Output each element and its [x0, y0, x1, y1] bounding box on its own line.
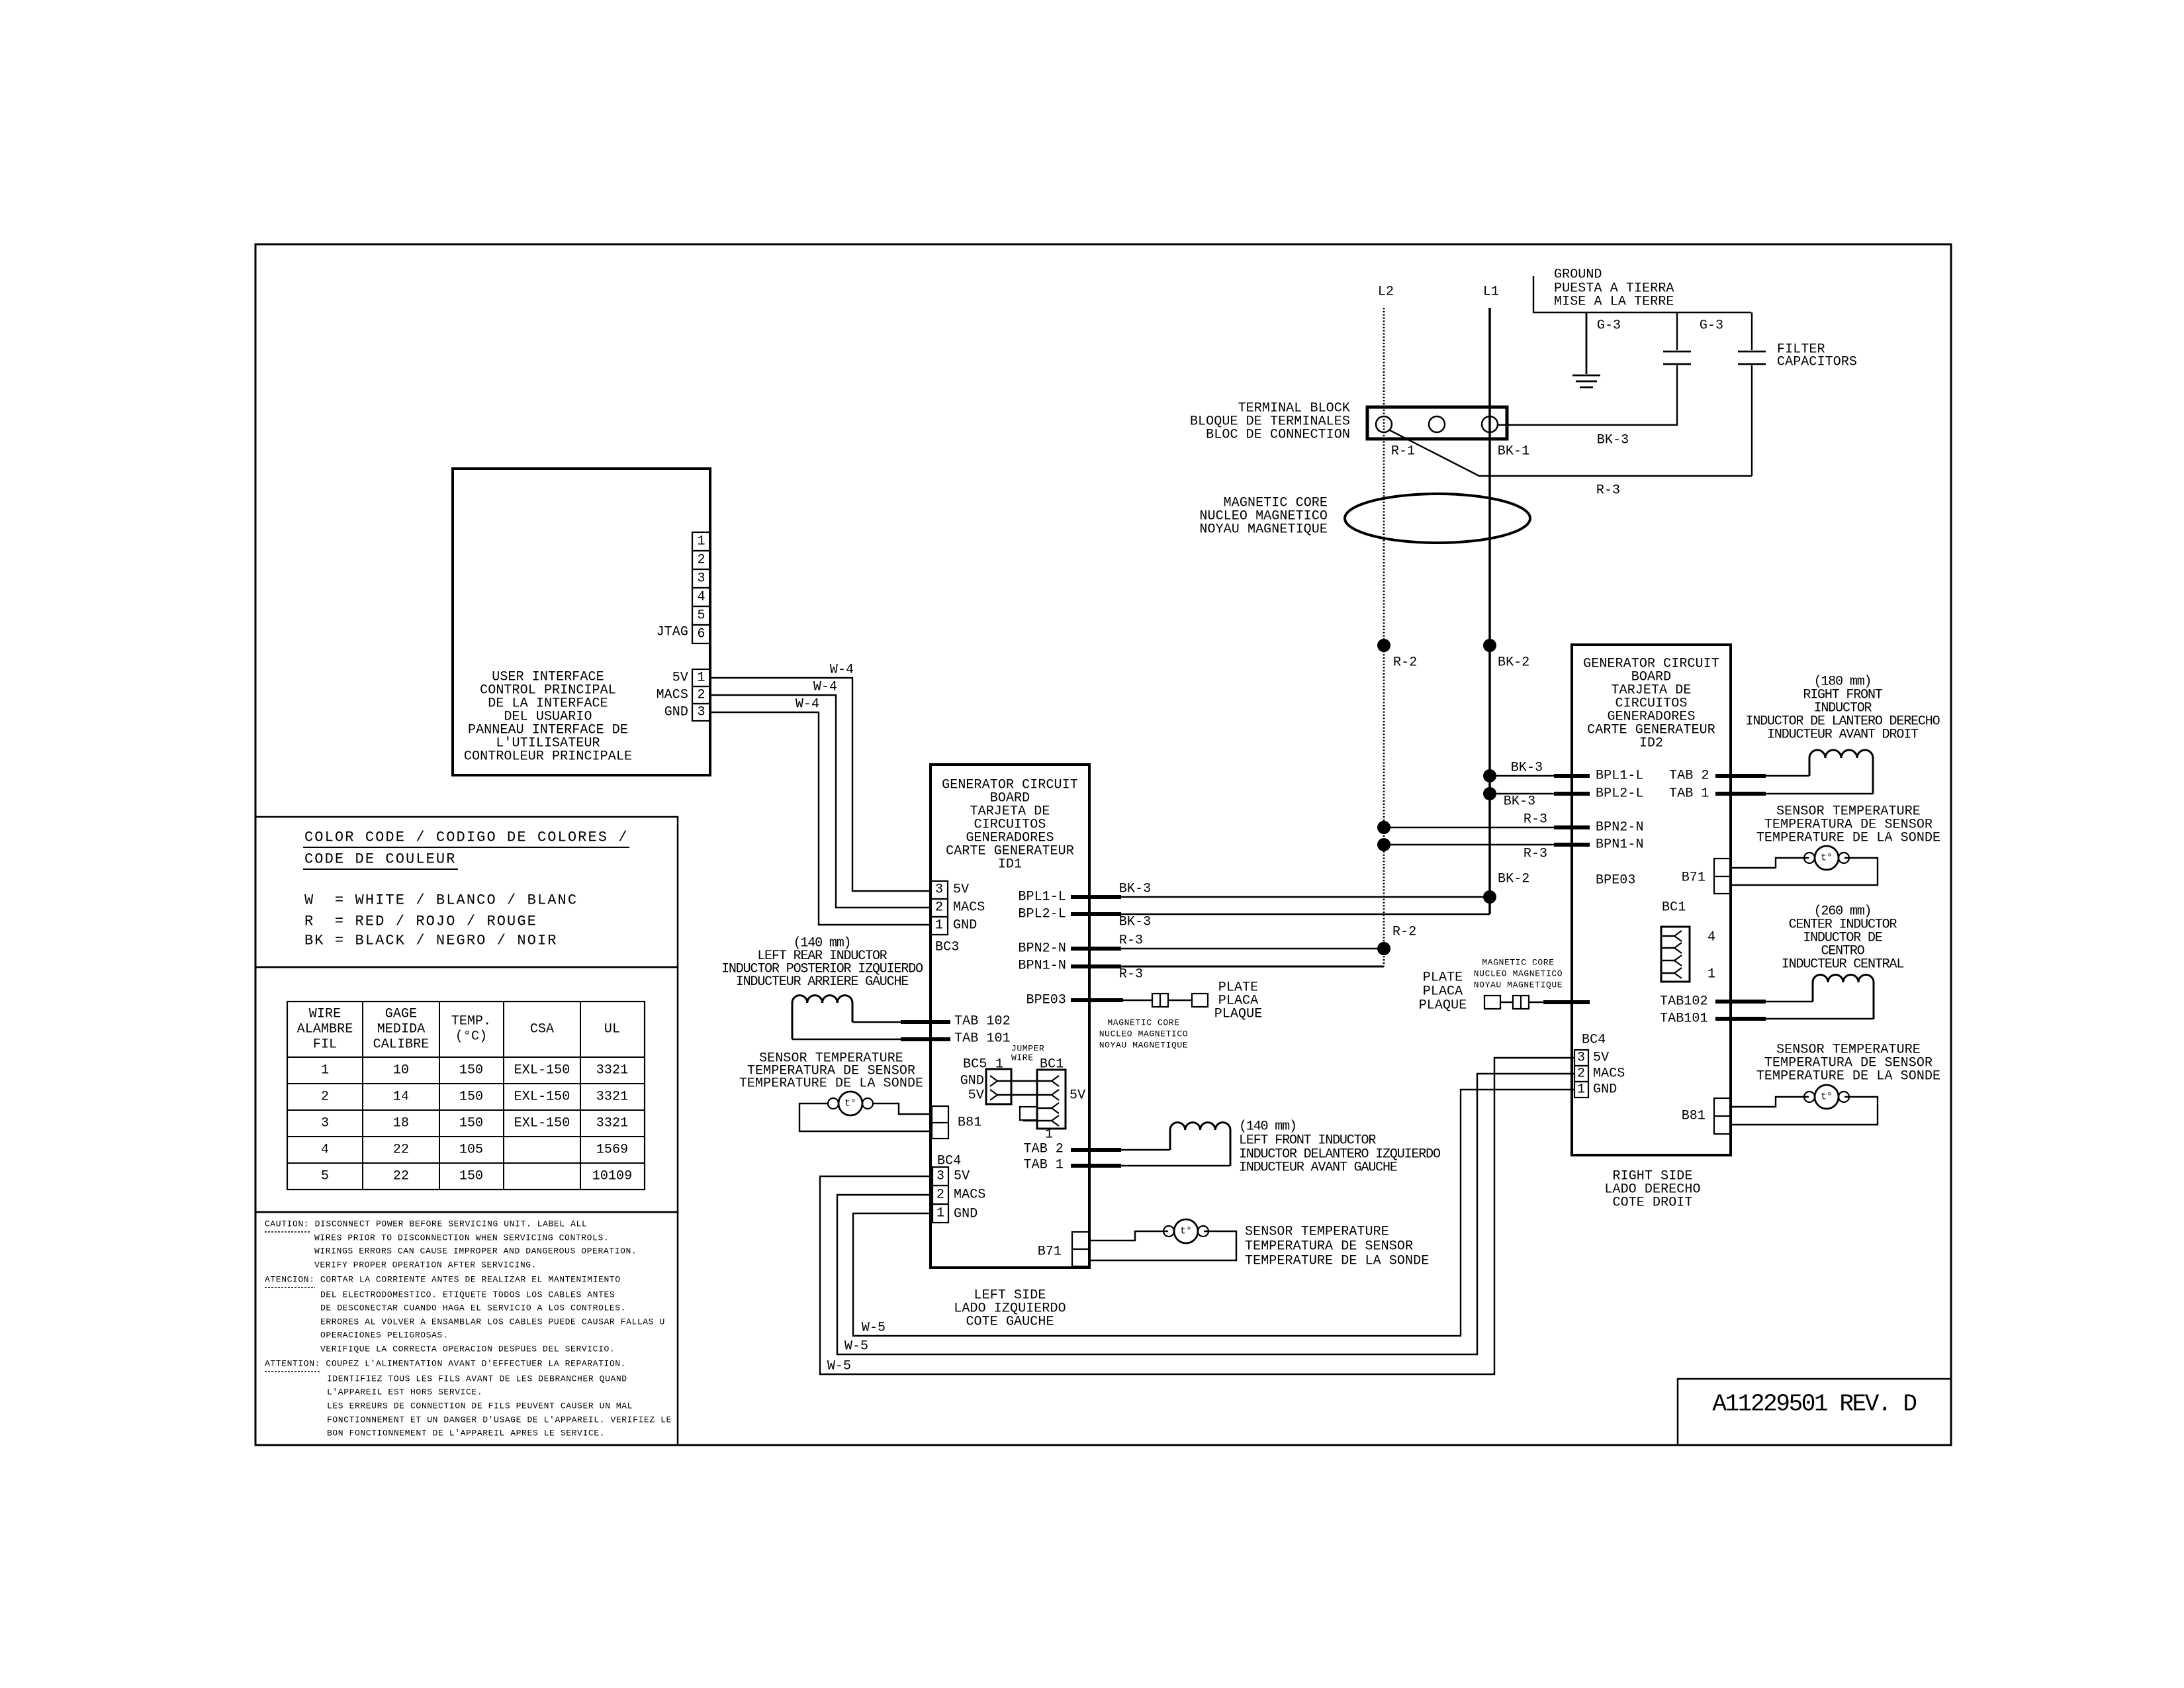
svg-text:BK-3: BK-3	[1119, 915, 1151, 930]
svg-text:CSA: CSA	[530, 1022, 554, 1037]
svg-text:CALIBRE: CALIBRE	[373, 1037, 430, 1053]
svg-text:W-5: W-5	[844, 1339, 868, 1354]
svg-text:PLAQUE: PLAQUE	[1214, 1007, 1263, 1022]
svg-text:2: 2	[697, 688, 705, 703]
ID2 pin BPL1-L	[1554, 774, 1590, 778]
svg-text:MEDIDA: MEDIDA	[377, 1022, 426, 1037]
wire W-4 GND	[710, 712, 931, 925]
svg-text:BPN2-N: BPN2-N	[1018, 941, 1066, 957]
page border	[255, 244, 1951, 1445]
svg-text:150: 150	[459, 1090, 483, 1105]
jumper wires BC5-BC1	[997, 1080, 1052, 1082]
wire BK-3 BPL2-L to L1	[1121, 914, 1490, 915]
svg-text:2: 2	[1577, 1066, 1585, 1082]
svg-text:5V: 5V	[953, 882, 969, 898]
svg-text:LEFT FRONT INDUCTOR: LEFT FRONT INDUCTOR	[1239, 1133, 1376, 1149]
svg-text:TAB 2: TAB 2	[1023, 1142, 1064, 1157]
svg-text:BK-2: BK-2	[1498, 872, 1529, 887]
svg-text:5V: 5V	[968, 1088, 984, 1103]
svg-text:W-4: W-4	[830, 663, 854, 678]
svg-text:INDUCTEUR ARRIERE GAUCHE: INDUCTEUR ARRIERE GAUCHE	[736, 974, 909, 990]
svg-text:3321: 3321	[596, 1116, 628, 1131]
svg-text:3321: 3321	[596, 1090, 628, 1105]
sensor B71 ID2	[1804, 853, 1815, 863]
svg-text:BLOC DE CONNECTION: BLOC DE CONNECTION	[1206, 428, 1350, 443]
svg-text:R-2: R-2	[1393, 655, 1417, 671]
svg-text:105: 105	[459, 1143, 483, 1158]
svg-text:2: 2	[935, 900, 943, 915]
filter capacitor C2	[1751, 312, 1752, 350]
svg-text:INDUCTEUR AVANT GAUCHE: INDUCTEUR AVANT GAUCHE	[1239, 1160, 1397, 1176]
sensor B71 ID1	[1163, 1226, 1174, 1237]
wire W-4 MACS	[710, 695, 931, 908]
svg-text:TAB 1: TAB 1	[1023, 1158, 1064, 1173]
svg-text:B81: B81	[1682, 1109, 1706, 1124]
svg-text:PLAQUE: PLAQUE	[1419, 998, 1467, 1013]
svg-text:TEMPERATURE DE LA SONDE: TEMPERATURE DE LA SONDE	[739, 1076, 923, 1092]
svg-text:5V: 5V	[954, 1169, 970, 1184]
svg-text:R-3: R-3	[1119, 933, 1143, 949]
svg-text:(140 mm): (140 mm)	[1239, 1119, 1297, 1135]
svg-text:GND: GND	[1593, 1082, 1617, 1098]
plate connector ID1	[1152, 994, 1168, 1007]
svg-text:4: 4	[697, 590, 705, 605]
ID1 connector BC3	[931, 881, 948, 899]
ground bracket	[1533, 276, 1751, 312]
generator circuit board ID1	[931, 765, 1089, 1268]
svg-text:2: 2	[321, 1090, 329, 1105]
svg-text:FIL: FIL	[313, 1037, 337, 1053]
svg-text:1: 1	[1045, 1127, 1053, 1143]
filter capacitor C1	[1676, 312, 1678, 350]
svg-text:R-3: R-3	[1524, 847, 1547, 862]
svg-text:COTE DROIT: COTE DROIT	[1612, 1196, 1692, 1211]
svg-text:ID2: ID2	[1639, 736, 1663, 751]
svg-text:R-1: R-1	[1391, 444, 1415, 459]
svg-text:1: 1	[935, 918, 943, 933]
svg-text:FONCTIONNEMENT ET UN DANGER D': FONCTIONNEMENT ET UN DANGER D'USAGE DE L…	[327, 1415, 672, 1425]
wire R-3 BPN1-N to L2	[1121, 966, 1384, 968]
svg-text:LES ERREURS DE CONNECTION DE F: LES ERREURS DE CONNECTION DE FILS PEUVEN…	[327, 1401, 633, 1411]
svg-text:EXL-150: EXL-150	[514, 1063, 570, 1078]
svg-text:150: 150	[459, 1116, 483, 1131]
svg-text:NUCLEO MAGNETICO: NUCLEO MAGNETICO	[1099, 1029, 1188, 1039]
svg-text:MACS: MACS	[1593, 1066, 1625, 1082]
junction L2 R-2	[1377, 639, 1390, 652]
svg-text:TAB 1: TAB 1	[1669, 786, 1709, 802]
svg-text:G-3: G-3	[1700, 318, 1723, 334]
inductor center	[1813, 975, 1874, 1019]
svg-text:UL: UL	[604, 1022, 620, 1037]
BC1 jumper plug	[1020, 1107, 1037, 1120]
svg-text:3: 3	[697, 571, 705, 586]
svg-text:DEL ELECTRODOMESTICO. ETIQUETE: DEL ELECTRODOMESTICO. ETIQUETE TODOS LOS…	[320, 1290, 615, 1300]
svg-text:JTAG: JTAG	[657, 625, 688, 640]
svg-text:WIRE: WIRE	[1011, 1053, 1034, 1063]
svg-text:EXL-150: EXL-150	[514, 1090, 570, 1105]
svg-text:VERIFIQUE LA CORRECTA OPERACIO: VERIFIQUE LA CORRECTA OPERACION DESPUES …	[320, 1344, 615, 1354]
wire gauge box	[255, 967, 678, 1212]
svg-text:GND: GND	[954, 1207, 978, 1222]
svg-text:BPN1-N: BPN1-N	[1018, 959, 1066, 974]
svg-text:W-4: W-4	[796, 697, 819, 712]
user interface box U1	[453, 469, 710, 775]
svg-text:6: 6	[697, 627, 705, 642]
svg-text:R-3: R-3	[1524, 812, 1547, 827]
svg-text:ID1: ID1	[998, 857, 1022, 872]
svg-text:BPL1-L: BPL1-L	[1596, 769, 1644, 784]
svg-text:1: 1	[936, 1206, 944, 1221]
svg-text:COLOR CODE / CODIGO DE COLORES: COLOR CODE / CODIGO DE COLORES /	[304, 829, 629, 846]
svg-text:2: 2	[697, 553, 705, 568]
svg-text:VERIFY PROPER OPERATION AFTER: VERIFY PROPER OPERATION AFTER SERVICING.	[314, 1260, 537, 1270]
svg-text:NOYAU MAGNETIQUE: NOYAU MAGNETIQUE	[1474, 980, 1563, 990]
svg-text:BK-3: BK-3	[1119, 882, 1151, 897]
svg-text:3: 3	[936, 1169, 944, 1184]
svg-text:BPE03: BPE03	[1596, 873, 1636, 888]
svg-text:10: 10	[393, 1063, 409, 1078]
svg-text:5: 5	[697, 608, 705, 624]
svg-text:MACS: MACS	[953, 900, 985, 915]
svg-text:TAB 101: TAB 101	[954, 1031, 1011, 1047]
svg-text:B71: B71	[1682, 870, 1706, 886]
svg-text:5: 5	[321, 1169, 329, 1184]
inductor left front	[1170, 1123, 1230, 1166]
svg-text:1: 1	[321, 1063, 329, 1078]
ground symbol	[1586, 312, 1588, 374]
svg-text:2: 2	[936, 1188, 944, 1203]
svg-text:L1: L1	[1483, 285, 1499, 300]
junction L2 BPN2 ID2	[1377, 821, 1390, 834]
wire R-3 BPN2-N to L2	[1121, 948, 1384, 949]
svg-text:L2: L2	[1378, 285, 1394, 300]
svg-text:WIRES PRIOR TO DISCONNECTION W: WIRES PRIOR TO DISCONNECTION WHEN SERVIC…	[314, 1233, 609, 1243]
wire W-5 GND	[853, 1090, 1574, 1336]
svg-text:10109: 10109	[592, 1169, 633, 1184]
svg-text:G-3: G-3	[1597, 318, 1621, 334]
wire L1	[1488, 308, 1491, 914]
svg-text:3: 3	[697, 705, 705, 720]
magnetic core ellipse	[1345, 494, 1530, 543]
svg-text:BK-3: BK-3	[1597, 433, 1629, 448]
junction L1 BK-2	[1483, 639, 1496, 652]
ID2 pin BPN1-N	[1554, 843, 1590, 847]
svg-text:ALAMBRE: ALAMBRE	[297, 1022, 353, 1037]
svg-text:NOYAU MAGNETIQUE: NOYAU MAGNETIQUE	[1099, 1041, 1188, 1051]
inductor right front	[1809, 750, 1873, 794]
svg-text:BC1: BC1	[1662, 900, 1686, 915]
junction L2 BPN2 ID1	[1377, 942, 1390, 955]
wire sensor B81 ID2	[1731, 1097, 1809, 1107]
plate connector ID2	[1484, 996, 1500, 1009]
svg-text:COTE GAUCHE: COTE GAUCHE	[966, 1315, 1054, 1330]
svg-text:INDUCTEUR AVANT DROIT: INDUCTEUR AVANT DROIT	[1767, 727, 1919, 743]
wire W-5 5V	[820, 1058, 1574, 1374]
svg-text:W-5: W-5	[862, 1321, 886, 1336]
svg-text:BPE03: BPE03	[1026, 993, 1066, 1008]
terminal block	[1367, 407, 1507, 439]
svg-text:BC5: BC5	[963, 1057, 987, 1072]
wire sensor B71 ID1	[1089, 1231, 1168, 1241]
svg-text:PLATE: PLATE	[1423, 970, 1463, 986]
svg-text:TAB101: TAB101	[1660, 1011, 1708, 1027]
svg-text:B81: B81	[958, 1115, 981, 1131]
svg-text:TEMPERATURE DE LA SONDE: TEMPERATURE DE LA SONDE	[1245, 1254, 1429, 1269]
svg-text:CAUTION: DISCONNECT POWER BEFO: CAUTION: DISCONNECT POWER BEFORE SERVICI…	[265, 1219, 587, 1229]
svg-text:L'APPAREIL EST HORS SERVICE.: L'APPAREIL EST HORS SERVICE.	[327, 1387, 482, 1397]
svg-text:INDUCTEUR CENTRAL: INDUCTEUR CENTRAL	[1782, 957, 1904, 972]
wire BPE03 to plate	[1123, 1000, 1152, 1001]
svg-text:t°: t°	[1180, 1226, 1192, 1237]
svg-text:5V: 5V	[1593, 1051, 1609, 1066]
svg-text:3321: 3321	[596, 1063, 628, 1078]
svg-text:GND: GND	[664, 705, 688, 720]
svg-text:BK = BLACK / NEGRO / NOIR: BK = BLACK / NEGRO / NOIR	[304, 933, 558, 949]
svg-text:5V: 5V	[672, 671, 688, 686]
sensor B81 left	[828, 1098, 839, 1109]
svg-text:BC3: BC3	[935, 940, 959, 955]
wire BK-3 terminal to C1	[1498, 424, 1677, 426]
svg-text:W = WHITE / BLANCO / BLANC: W = WHITE / BLANCO / BLANC	[304, 892, 578, 909]
wire BK-3 L1 to BPL2 ID2	[1490, 793, 1572, 794]
svg-text:BPL2-L: BPL2-L	[1596, 786, 1644, 802]
ID2 pin BPN2-N	[1554, 825, 1590, 829]
JTAG connector pins 1-6	[692, 532, 710, 551]
wire BK-3 BPL1-L to L1	[1121, 896, 1490, 898]
ID2 pin BPL2-L	[1554, 792, 1590, 796]
svg-text:4: 4	[1707, 930, 1715, 945]
svg-text:SENSOR TEMPERATURE: SENSOR TEMPERATURE	[1245, 1225, 1389, 1240]
svg-text:A11229501 REV. D: A11229501 REV. D	[1712, 1391, 1916, 1418]
wire R-3 L2 to BPN1 ID2	[1384, 844, 1572, 845]
svg-text:TAB 102: TAB 102	[954, 1014, 1011, 1029]
svg-text:1: 1	[1707, 967, 1715, 982]
svg-text:ATTENTION: COUPEZ L'ALIMENTATI: ATTENTION: COUPEZ L'ALIMENTATION AVANT D…	[265, 1359, 626, 1369]
svg-text:GND: GND	[960, 1074, 984, 1089]
svg-text:ERRORES AL VOLVER A ENSAMBLAR: ERRORES AL VOLVER A ENSAMBLAR LOS CABLES…	[320, 1317, 665, 1327]
svg-text:MAGNETIC CORE: MAGNETIC CORE	[1107, 1018, 1179, 1028]
title block	[1678, 1379, 1951, 1445]
svg-text:B71: B71	[1038, 1244, 1062, 1260]
svg-text:OPERACIONES PELIGROSAS.: OPERACIONES PELIGROSAS.	[320, 1331, 448, 1340]
wire sensor left to B81	[799, 1103, 931, 1131]
svg-text:IDENTIFIEZ TOUS LES FILS AVANT: IDENTIFIEZ TOUS LES FILS AVANT DE LES DE…	[327, 1374, 627, 1384]
svg-text:GROUND: GROUND	[1554, 267, 1602, 283]
generator circuit board ID2	[1572, 645, 1731, 1155]
svg-text:CODE DE COULEUR: CODE DE COULEUR	[304, 851, 457, 868]
svg-text:BPN2-N: BPN2-N	[1596, 820, 1644, 835]
svg-text:R-2: R-2	[1392, 925, 1416, 940]
svg-text:MACS: MACS	[954, 1188, 985, 1203]
svg-text:BK-2: BK-2	[1498, 655, 1529, 671]
svg-text:22: 22	[393, 1169, 409, 1184]
svg-text:3: 3	[321, 1116, 329, 1131]
junction L1 BPL2 ID2	[1483, 787, 1496, 800]
sensor B81 ID2	[1804, 1092, 1815, 1102]
UI connector pins 1-3	[692, 669, 710, 686]
svg-text:14: 14	[393, 1090, 409, 1105]
svg-text:22: 22	[393, 1143, 409, 1158]
svg-text:TAB 2: TAB 2	[1669, 769, 1709, 784]
svg-text:1: 1	[697, 671, 705, 686]
ID1 connector B81	[932, 1106, 948, 1139]
svg-text:150: 150	[459, 1169, 483, 1184]
svg-text:R-3: R-3	[1596, 483, 1620, 498]
svg-text:R-3: R-3	[1119, 967, 1143, 982]
svg-text:R = RED / ROJO / ROUGE: R = RED / ROJO / ROUGE	[304, 914, 537, 930]
svg-text:NUCLEO MAGNETICO: NUCLEO MAGNETICO	[1474, 969, 1563, 979]
svg-text:ATENCION: CORTAR LA CORRIENTE: ATENCION: CORTAR LA CORRIENTE ANTES DE R…	[265, 1275, 621, 1285]
svg-text:BK-3: BK-3	[1504, 794, 1535, 810]
wire L2	[1383, 308, 1385, 966]
wire sensor B71 ID2	[1731, 858, 1809, 868]
svg-text:MAGNETIC CORE: MAGNETIC CORE	[1482, 958, 1554, 968]
svg-text:TEMPERATURE DE LA SONDE: TEMPERATURE DE LA SONDE	[1756, 1069, 1940, 1084]
svg-text:TAB102: TAB102	[1660, 994, 1708, 1009]
wire BK-3 L1 to BPL1 ID2	[1490, 775, 1572, 776]
svg-text:BK-1: BK-1	[1498, 444, 1529, 459]
svg-text:BON FONCTIONNEMENT DE L'APPARE: BON FONCTIONNEMENT DE L'APPAREIL APRES L…	[327, 1429, 605, 1438]
wire gauge table	[287, 1002, 645, 1190]
svg-text:3: 3	[935, 882, 943, 898]
svg-text:4: 4	[321, 1143, 329, 1158]
inductor left rear	[792, 996, 852, 1039]
svg-text:t°: t°	[1821, 1092, 1833, 1103]
svg-text:1: 1	[697, 534, 705, 549]
svg-text:DE DESCONECTAR CUANDO HAGA EL: DE DESCONECTAR CUANDO HAGA EL SERVICIO A…	[320, 1303, 626, 1313]
svg-text:150: 150	[459, 1063, 483, 1078]
svg-text:GND: GND	[953, 918, 977, 933]
svg-text:JUMPER: JUMPER	[1011, 1044, 1044, 1054]
wire R-3 L2 to BPN2 ID2	[1384, 827, 1572, 828]
svg-text:(°C): (°C)	[455, 1029, 487, 1045]
svg-text:GAGE: GAGE	[385, 1007, 417, 1022]
svg-text:MISE A LA TERRE: MISE A LA TERRE	[1554, 295, 1674, 310]
svg-text:BC4: BC4	[1582, 1033, 1606, 1048]
svg-text:t°: t°	[1821, 853, 1833, 864]
junction L2 BPN1 ID2	[1377, 838, 1390, 851]
wire W-5 MACS	[837, 1074, 1574, 1354]
wire W-4 5V	[710, 678, 931, 891]
svg-text:BPL1-L: BPL1-L	[1018, 890, 1066, 905]
svg-text:BPN1-N: BPN1-N	[1596, 837, 1644, 853]
svg-text:PLACA: PLACA	[1423, 984, 1463, 1000]
svg-text:W-4: W-4	[813, 680, 837, 695]
svg-text:1569: 1569	[596, 1143, 628, 1158]
svg-text:EXL-150: EXL-150	[514, 1116, 570, 1131]
svg-text:1: 1	[1577, 1082, 1585, 1098]
svg-text:WIRINGS ERRORS CAN CAUSE IMPRO: WIRINGS ERRORS CAN CAUSE IMPROPER AND DA…	[314, 1246, 637, 1256]
svg-text:18: 18	[393, 1116, 409, 1131]
svg-text:W-5: W-5	[827, 1359, 851, 1374]
svg-text:TEMPERATURE DE LA SONDE: TEMPERATURE DE LA SONDE	[1756, 831, 1940, 846]
svg-text:3: 3	[1577, 1051, 1585, 1066]
svg-text:BPL2-L: BPL2-L	[1018, 907, 1066, 922]
svg-text:CAPACITORS: CAPACITORS	[1777, 355, 1857, 370]
caution box	[255, 1212, 678, 1445]
svg-text:NOYAU MAGNETIQUE: NOYAU MAGNETIQUE	[1199, 522, 1328, 538]
svg-text:5V: 5V	[1069, 1088, 1085, 1103]
svg-text:TEMP.: TEMP.	[451, 1014, 492, 1029]
color code box	[255, 817, 678, 967]
svg-text:MACS: MACS	[657, 688, 688, 703]
svg-text:t°: t°	[844, 1098, 856, 1109]
svg-text:CONTROLEUR PRINCIPALE: CONTROLEUR PRINCIPALE	[464, 749, 632, 765]
svg-text:TEMPERATURA DE SENSOR: TEMPERATURA DE SENSOR	[1245, 1239, 1413, 1254]
svg-text:WIRE: WIRE	[309, 1007, 341, 1022]
junction L1 BPL1 ID2	[1483, 769, 1496, 782]
wire R-3 terminal to C2	[1390, 430, 1752, 476]
svg-text:BK-3: BK-3	[1511, 761, 1543, 776]
junction L1 BPL1 ID1	[1483, 890, 1496, 904]
